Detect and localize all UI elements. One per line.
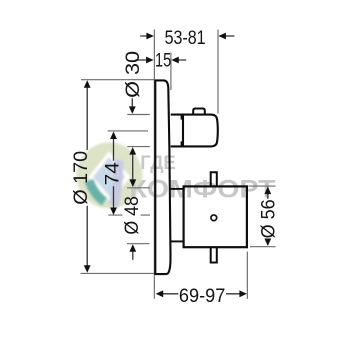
adapter notch top [181,115,184,120]
extension line left long [153,30,155,299]
extension line box top right [248,185,275,187]
svg-text:53-81: 53-81 [165,27,206,49]
extension line plate bottom [81,272,155,274]
top knob divider [182,115,184,147]
escutcheon plate side view [155,80,170,274]
dimension Ø56 [258,187,280,246]
extension line knob top [127,114,150,116]
sleeve bottom line [170,240,184,242]
dimension 74 [101,132,123,216]
extension line plate top [81,79,154,81]
dimension 15 [135,49,186,71]
extension line box axis [108,214,150,216]
handle screw [211,215,217,221]
dimension Ø30 lower arrow / Ø48 upper arrow [129,147,136,187]
extension line sleeve bottom [127,243,149,245]
dimension Ø48 text and lower arrow [121,196,143,260]
dimension 53-81 [140,27,234,49]
top knob outline [171,115,218,147]
adapter notch bottom [181,141,184,146]
top knob button [193,109,205,115]
svg-text:Ø 56: Ø 56 [258,199,280,238]
svg-text:КОМФОРТ: КОМФОРТ [130,177,276,204]
svg-text:74: 74 [101,162,123,185]
svg-text:69-97: 69-97 [179,285,225,307]
thermostat handle box [184,186,247,247]
bottom stem [211,247,217,262]
svg-text:Ø 30: Ø 30 [122,51,144,98]
dimension Ø30 upper arrow [122,51,144,114]
sleeve top line [170,188,184,190]
extension line 15 right [170,53,172,91]
watermark logo blob [77,143,143,209]
dimension Ø170 [70,80,92,272]
extension line box bottom right [250,246,276,248]
svg-text:Ø 48: Ø 48 [121,196,143,235]
extension line knob bottom [127,146,150,148]
extension line knob axis [108,130,148,132]
extension line sleeve top [127,187,150,189]
extension line 53-81 right [217,30,219,114]
extension line 69-97 right [246,252,248,299]
svg-text:Ø 170: Ø 170 [70,151,92,205]
dimension 69-97 [156,285,247,307]
svg-text:15: 15 [155,49,171,71]
top stem [211,172,217,186]
